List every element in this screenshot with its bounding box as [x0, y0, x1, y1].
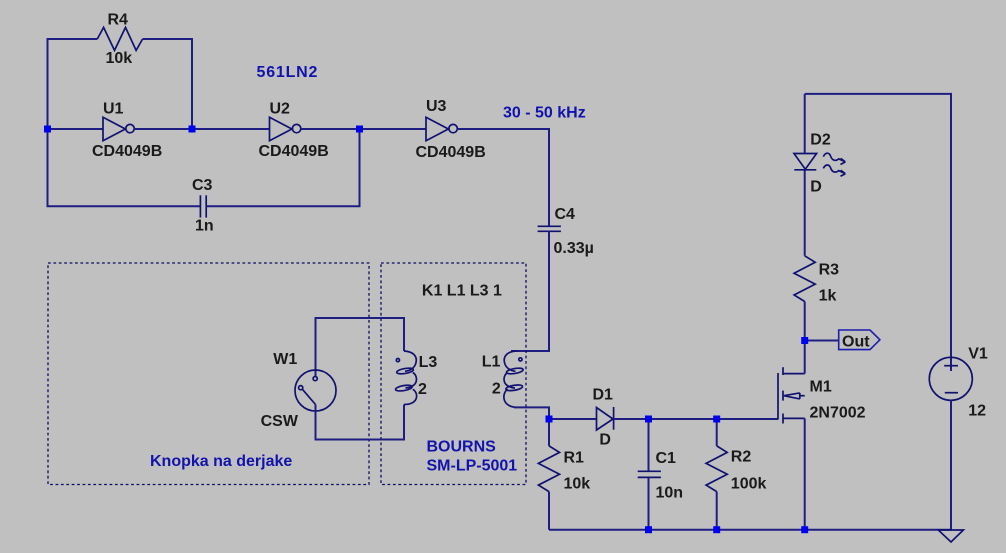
wire L1 bottom to node D: [514, 407, 549, 419]
svg-text:561LN2: 561LN2: [257, 64, 319, 81]
inverter U1 CD4049B: [103, 117, 134, 140]
wire C3 loop bottom: [48, 129, 201, 206]
node C: [356, 126, 363, 133]
wire node B to U2: [192, 128, 270, 130]
dashed box BOURNS: [381, 263, 526, 485]
wire R4 loop left vertical: [48, 39, 98, 129]
svg-text:10k: 10k: [106, 50, 133, 67]
svg-text:L1: L1: [482, 354, 501, 371]
wire R3 bottom lead: [804, 302, 806, 341]
node E (C1 top): [645, 416, 652, 423]
svg-text:R2: R2: [731, 449, 752, 466]
svg-text:C4: C4: [555, 206, 576, 223]
wire bottom rail: [549, 529, 951, 531]
wire R1 top lead: [548, 419, 550, 446]
node I (R2 bottom): [713, 526, 720, 533]
svg-text:10k: 10k: [564, 475, 591, 492]
wire R2 bottom lead: [716, 492, 718, 530]
svg-text:2N7002: 2N7002: [810, 405, 866, 422]
wire D2 top lead: [804, 94, 806, 154]
inverter U3 CD4049B: [426, 117, 457, 140]
wire W1 top loop: [316, 318, 405, 376]
wire C3 right to node C: [206, 129, 359, 206]
svg-text:R3: R3: [819, 262, 840, 279]
wire to Out flag: [805, 340, 839, 342]
resistor R2: [706, 446, 727, 492]
voltage source V1: [929, 357, 972, 400]
svg-text:C3: C3: [192, 177, 213, 194]
svg-text:U2: U2: [270, 101, 291, 118]
svg-text:CSW: CSW: [261, 413, 299, 430]
wire R4 right to node: [143, 39, 192, 129]
svg-text:2: 2: [492, 381, 501, 398]
node H (C1 bottom): [645, 526, 652, 533]
wire M1 drain: [804, 341, 806, 374]
svg-text:L3: L3: [419, 354, 438, 371]
node F (R2 top): [713, 416, 720, 423]
wire U3 out to C4: [457, 129, 549, 226]
svg-text:R4: R4: [108, 12, 129, 29]
wire C1 bottom lead: [648, 477, 650, 529]
resistor R1: [538, 446, 559, 492]
resistor R4: [97, 27, 142, 50]
inductor L3: [395, 351, 417, 405]
net flag Out: [839, 330, 880, 351]
svg-text:BOURNS: BOURNS: [427, 439, 497, 456]
svg-text:R1: R1: [564, 450, 585, 467]
svg-text:10n: 10n: [656, 485, 684, 502]
mosfet M1 2N7002: [778, 367, 805, 423]
wire C1 top lead: [648, 419, 650, 471]
svg-text:2: 2: [418, 381, 427, 398]
capacitor C3: [200, 195, 206, 217]
wire node C to U3: [360, 128, 427, 130]
svg-text:V1: V1: [968, 346, 988, 363]
wire U1 out to node B: [134, 128, 192, 130]
svg-text:CD4049B: CD4049B: [259, 143, 329, 160]
diode D2 LED: [794, 153, 846, 177]
wire V1 bottom lead: [950, 400, 952, 530]
svg-text:CD4049B: CD4049B: [92, 143, 162, 160]
dashed box Knopka: [48, 263, 369, 485]
node J (M1 source bottom): [801, 526, 808, 533]
svg-text:30 - 50 kHz: 30 - 50 kHz: [503, 105, 586, 122]
svg-text:U1: U1: [103, 101, 124, 118]
svg-text:100k: 100k: [731, 476, 767, 493]
svg-text:D1: D1: [593, 387, 614, 404]
switch W1: [295, 370, 336, 411]
svg-text:Knopka na derjake: Knopka na derjake: [150, 453, 292, 470]
svg-text:Out: Out: [842, 334, 870, 351]
wire W1 bottom loop: [316, 405, 405, 440]
svg-text:SM-LP-5001: SM-LP-5001: [427, 458, 518, 475]
capacitor C4: [538, 226, 561, 231]
svg-text:M1: M1: [810, 379, 832, 396]
wire R1 bottom lead: [548, 492, 550, 530]
svg-text:1k: 1k: [819, 288, 837, 305]
resistor R3: [794, 256, 815, 302]
wire R3 top lead: [804, 170, 806, 256]
svg-text:12: 12: [968, 403, 986, 420]
svg-text:U3: U3: [426, 98, 447, 115]
svg-text:D: D: [810, 179, 822, 196]
wire C4 to L1 top: [511, 231, 549, 351]
svg-text:1n: 1n: [195, 218, 214, 235]
wire U2 out to node C: [301, 128, 360, 130]
wire M1 source: [804, 418, 806, 529]
inductor L1: [504, 351, 524, 407]
svg-text:D: D: [599, 432, 611, 449]
svg-text:C1: C1: [656, 450, 677, 467]
wire node A to U1 input: [48, 128, 104, 130]
diode D1: [597, 407, 614, 430]
svg-text:K1 L1 L3 1: K1 L1 L3 1: [422, 283, 502, 300]
svg-text:CD4049B: CD4049B: [416, 144, 486, 161]
node D (L1/D1/R1): [546, 416, 553, 423]
svg-text:0.33µ: 0.33µ: [554, 240, 594, 257]
wire R2 top lead: [716, 419, 718, 446]
capacitor C1: [638, 471, 661, 477]
node G (Out junction): [801, 337, 808, 344]
node B: [189, 126, 196, 133]
inverter U2 CD4049B: [270, 117, 301, 140]
svg-text:D2: D2: [810, 132, 831, 149]
wire D1 to M1 gate: [614, 418, 778, 420]
svg-text:W1: W1: [273, 351, 297, 368]
ground: [938, 530, 963, 542]
wire top rail: [805, 94, 951, 371]
wire node D to D1: [549, 418, 597, 420]
node A (U1 input junction): [44, 126, 51, 133]
